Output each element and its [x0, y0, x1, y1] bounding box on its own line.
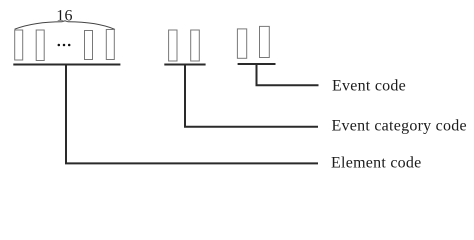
wire from event category field down and right to label — [185, 65, 318, 127]
bit box 1 of event field — [237, 29, 246, 58]
ellipsis dots — [58, 44, 61, 47]
bit box 1 of event category field — [169, 30, 177, 61]
bit box 4 of element field — [106, 30, 114, 60]
bit box 2 of event category field — [191, 30, 200, 61]
svg-text:Element code: Element code — [331, 155, 422, 172]
svg-text:Event code: Event code — [332, 77, 406, 94]
svg-text:16: 16 — [56, 8, 73, 25]
bit box 2 of event field — [260, 26, 270, 57]
wire from element field down and right to label — [66, 65, 318, 164]
brace over 16-bit field — [15, 21, 115, 30]
underline of element field — [13, 64, 120, 66]
bit box 2 of element field — [36, 30, 44, 61]
underline of event category field — [164, 64, 205, 66]
bit box 3 of element field — [85, 31, 93, 60]
wire from event field down and right to label — [257, 64, 319, 85]
bit box 1 of element field — [15, 30, 23, 60]
svg-text:Event category code: Event category code — [332, 117, 467, 134]
underline of event field — [238, 63, 276, 65]
